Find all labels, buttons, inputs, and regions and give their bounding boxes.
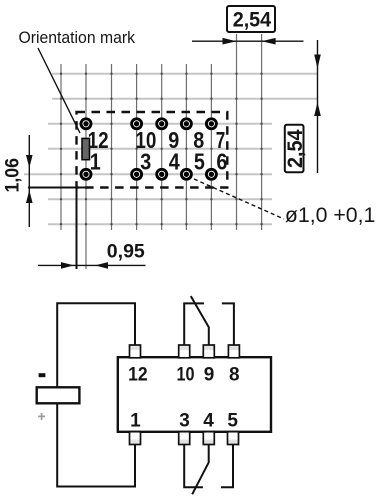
dimension 0,95: left arrow: [61, 262, 74, 269]
pin pad 12: [130, 345, 141, 358]
switch contact: pin 10 fixed: [184, 303, 204, 345]
pin pad 3: [179, 432, 190, 445]
coil wire: pin 12 to battery minus: [57, 303, 135, 387]
dimension 2,54 top: boxed label: [227, 6, 275, 32]
hole pin 6: [205, 168, 218, 181]
hole diameter leader line: [194, 179, 284, 219]
dimension 1,06: vertical dimension line: [28, 135, 30, 227]
hole pin 5: [180, 168, 193, 181]
svg-text:1,06: 1,06: [2, 158, 23, 193]
svg-text:6: 6: [216, 148, 227, 174]
dimension 1,06: down arrow: [26, 155, 33, 168]
dimension 0,95: dimension line: [38, 264, 146, 266]
svg-text:2,54: 2,54: [233, 8, 272, 31]
switch contact: pin 5 fixed: [221, 444, 233, 487]
relay body U1: [118, 357, 271, 432]
dimension 2,54 top: dimension line: [192, 40, 304, 42]
pin pad 1: [130, 432, 141, 445]
dimension 2,54 top: left arrow: [223, 38, 237, 45]
component outline (dashed): [77, 112, 228, 188]
svg-text:1: 1: [130, 410, 141, 431]
hole pin 4: [155, 168, 168, 181]
pin pad 9: [203, 345, 214, 358]
coil wire: battery plus to pin 1: [57, 403, 135, 486]
svg-text:0,95: 0,95: [107, 242, 145, 263]
outline bottom edge extension line: [28, 187, 89, 189]
svg-text:5: 5: [227, 410, 238, 431]
dimension 2,54 right: down arrow: [314, 55, 321, 69]
svg-text:ø1,0 +0,1: ø1,0 +0,1: [285, 204, 376, 227]
switch contact: pin 8 fixed: [222, 303, 234, 345]
svg-text:10: 10: [177, 365, 195, 386]
hole pin 10: [130, 117, 143, 130]
svg-text:4: 4: [169, 148, 180, 174]
pin pad 5: [228, 432, 239, 445]
dimension 2,54 right: dimension line: [317, 40, 319, 173]
outline left edge extension line: [76, 182, 78, 269]
battery B1: [37, 387, 80, 403]
svg-text:9: 9: [204, 365, 215, 386]
svg-text:Orientation mark: Orientation mark: [19, 28, 136, 47]
orientation mark: [82, 138, 90, 159]
svg-text:1: 1: [90, 148, 101, 174]
svg-text:4: 4: [203, 410, 214, 431]
dimension 2,54 top: right arrow: [262, 38, 276, 45]
switch blade: pin 4: [192, 444, 209, 494]
pin pad 4: [203, 432, 214, 445]
PCB grid columns: [61, 34, 262, 269]
svg-text:5: 5: [194, 148, 205, 174]
PCB grid rows: [24, 74, 318, 225]
svg-text:12: 12: [128, 365, 148, 386]
svg-text:2,54: 2,54: [284, 129, 307, 168]
battery plus sign: [38, 413, 45, 420]
dimension 2,54 right: up arrow: [314, 102, 321, 116]
svg-text:3: 3: [140, 148, 151, 174]
grid junction dots: [60, 73, 263, 226]
orientation mark leader line: [38, 48, 80, 133]
svg-text:3: 3: [179, 410, 190, 431]
dimension 0,95: right arrow: [95, 262, 108, 269]
dimension 2,54 right: boxed label (rotated): [284, 125, 307, 172]
hole pin 9: [155, 117, 168, 130]
pin pad 8: [228, 345, 239, 358]
battery minus sign: [39, 373, 46, 377]
svg-text:8: 8: [229, 365, 240, 386]
switch blade: pin 9: [191, 296, 209, 345]
switch contact: pin 3 fixed: [184, 444, 203, 487]
hole pin 12: [80, 117, 93, 130]
hole pin 3: [130, 168, 143, 181]
hole pin 1: [80, 168, 93, 181]
pin pad 10: [179, 345, 190, 358]
hole pin 7: [205, 117, 218, 130]
dimension 1,06: up arrow: [26, 190, 33, 203]
hole pin 8: [180, 117, 193, 130]
